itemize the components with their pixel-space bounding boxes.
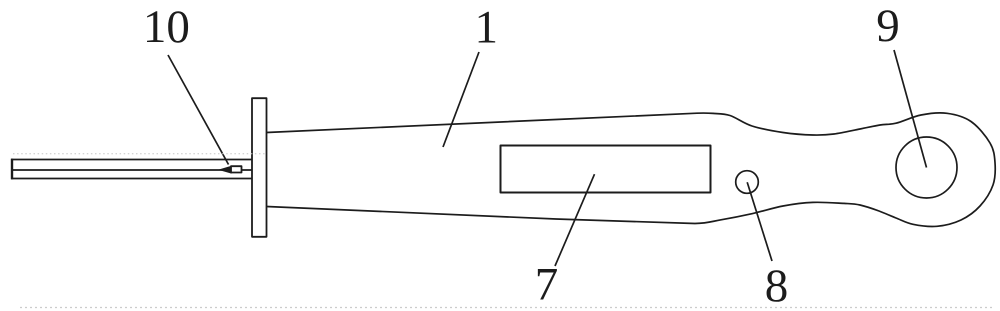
display window rectangle 7 (501, 146, 711, 193)
leader line 10 (168, 55, 229, 165)
svg-text:8: 8 (765, 260, 789, 311)
probe rod top line (11, 159, 252, 161)
leader line 9 (894, 50, 927, 168)
svg-text:10: 10 (143, 1, 190, 53)
svg-text:7: 7 (535, 259, 559, 311)
tool body outline (267, 113, 996, 227)
probe rod middle line (11, 169, 252, 171)
button circle 8 (736, 171, 759, 194)
leader line 8 (747, 182, 772, 261)
probe rod bottom line (11, 178, 252, 180)
faint bottom scan line (20, 307, 995, 309)
faint scan artifact line above rod (13, 153, 266, 155)
svg-text:9: 9 (876, 0, 900, 52)
hole in handle end (896, 137, 957, 198)
probe rod left end cap (11, 159, 13, 180)
leader line 1 (443, 52, 479, 147)
tip detail rectangle 10 (231, 166, 242, 172)
flange plate (252, 98, 267, 237)
leader line 7 (555, 174, 595, 266)
arrowhead of leader 10 (218, 166, 232, 174)
svg-text:1: 1 (475, 2, 499, 54)
